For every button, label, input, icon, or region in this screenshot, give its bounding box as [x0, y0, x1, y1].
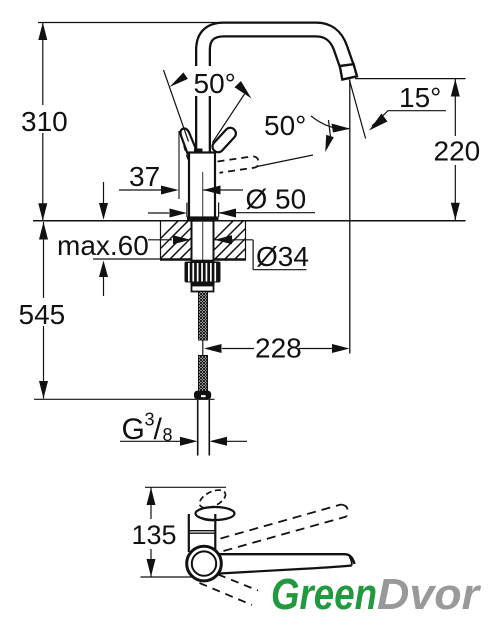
svg-text:Green: Green [271, 570, 377, 619]
svg-text:Dvor: Dvor [377, 570, 482, 619]
svg-text:50°: 50° [194, 68, 236, 99]
body of faucet [189, 153, 215, 218]
arrowhead 50-2 down [325, 135, 334, 152]
svg-text:220: 220 [434, 136, 481, 167]
countertop bottom edge [160, 258, 246, 261]
leader: left lever axis line [164, 70, 189, 142]
svg-text:37: 37 [129, 161, 160, 192]
dimension 310 [42, 23, 44, 106]
arrowhead 50deg left [170, 72, 188, 87]
svg-text:310: 310 [21, 106, 68, 137]
countertop hatched section right [192, 217, 287, 262]
leader: dashed lever axis line extension [257, 155, 313, 167]
leader: right lever axis line [213, 94, 245, 143]
dimension 545 [43, 222, 45, 298]
svg-text:228: 228 [255, 333, 302, 364]
hose break center line [202, 340, 204, 356]
swivel ring [187, 546, 222, 581]
countertop left edge [160, 221, 162, 259]
flexible hose lower segment [199, 356, 208, 392]
centerline of faucet [202, 172, 204, 261]
spout tube bottom view [218, 554, 355, 564]
mounting nut knurled [185, 262, 221, 292]
dashed spout up position [221, 505, 348, 552]
lever handle right solid (up-right position) [210, 126, 238, 155]
hose end nut [194, 391, 211, 400]
hose end line (545 bottom reference) [34, 398, 215, 400]
svg-text:8: 8 [163, 425, 173, 445]
wire: outlet level extension line (220 top reference) [355, 78, 466, 80]
svg-text:545: 545 [19, 299, 66, 330]
svg-text:max.60: max.60 [57, 230, 149, 261]
dimension 220 [454, 79, 456, 136]
countertop hatched section left [137, 217, 232, 262]
arrowhead 50deg right [235, 81, 252, 99]
svg-text:Ø 50: Ø 50 [246, 184, 307, 215]
bottom view faucet: handle plate [196, 507, 235, 520]
arrowhead 15deg [369, 114, 388, 131]
svg-text:Ø34: Ø34 [256, 241, 309, 272]
dimension O50 [148, 212, 169, 214]
countertop right edge [245, 221, 247, 259]
extension line top (135 top ref) [145, 486, 226, 488]
lever handle dashed (horizontal position) [218, 156, 259, 172]
spout tube (thick white-filled tube via double stroke) [203, 30, 347, 154]
flexible hose upper segment [199, 292, 208, 341]
svg-text:135: 135 [132, 520, 177, 550]
countertop top line [33, 220, 466, 222]
arc 50-2 to vertical line [311, 116, 349, 129]
dashed spout down position [200, 575, 259, 606]
aerator at spout outlet [340, 64, 357, 79]
node: spout outlet reference vertical line [349, 80, 351, 354]
flange witness lines [186, 203, 188, 218]
body cylinder bottom view [189, 514, 216, 552]
dimension 37 [178, 131, 180, 199]
svg-text:50°: 50° [264, 110, 306, 141]
G 3/8 tail pipe [197, 400, 199, 456]
wire: 15 deg stream line [349, 80, 365, 139]
dimension G3/8 [120, 440, 180, 442]
joint tick on body top [194, 149, 203, 154]
dimension 135 [150, 487, 152, 519]
label 50deg first [191, 66, 243, 96]
dashed handle lifted [197, 486, 228, 511]
svg-text:15°: 15° [399, 82, 441, 113]
lever handle left (solid with dashes) [180, 128, 197, 165]
wire: top extension line (310 top reference) [38, 22, 322, 24]
mounting shank through counter [192, 221, 214, 261]
leader for 15 deg [372, 111, 446, 126]
extension line bottom (135 bottom ref) [141, 576, 194, 578]
base flange [187, 217, 219, 222]
dimension 228 [222, 348, 254, 350]
dimension O34 [148, 239, 172, 241]
